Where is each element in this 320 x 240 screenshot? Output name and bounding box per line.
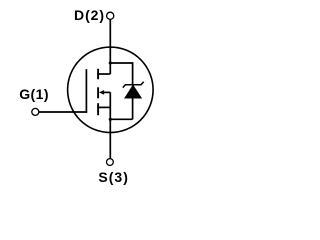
gate bar [85, 69, 87, 113]
mosfet envelope circle [68, 47, 154, 133]
drain stub [97, 73, 110, 75]
diode triangle [125, 85, 141, 98]
wire drain vertical [109, 19, 111, 74]
channel segment middle [97, 87, 99, 98]
svg-text:D(2): D(2) [74, 7, 104, 23]
wire diode anode [132, 98, 134, 119]
zener cathode bar Z1 [123, 82, 144, 88]
channel segment top [97, 69, 99, 80]
terminal G circle [32, 108, 39, 115]
terminal D circle [107, 12, 114, 19]
svg-text:G(1): G(1) [19, 86, 48, 102]
wire diode bottom branch [110, 118, 132, 120]
junction dot bottom [109, 118, 112, 121]
wire diode top branch [110, 63, 132, 85]
terminal S circle [107, 159, 114, 166]
junction dot top [109, 61, 112, 64]
source stub [97, 106, 110, 108]
channel segment bottom [97, 103, 99, 115]
svg-text:S(3): S(3) [98, 169, 128, 185]
wire gate [39, 111, 87, 113]
body arrowhead [99, 90, 104, 95]
body arrow stub [103, 91, 110, 93]
source bus vertical wire [109, 92, 111, 158]
